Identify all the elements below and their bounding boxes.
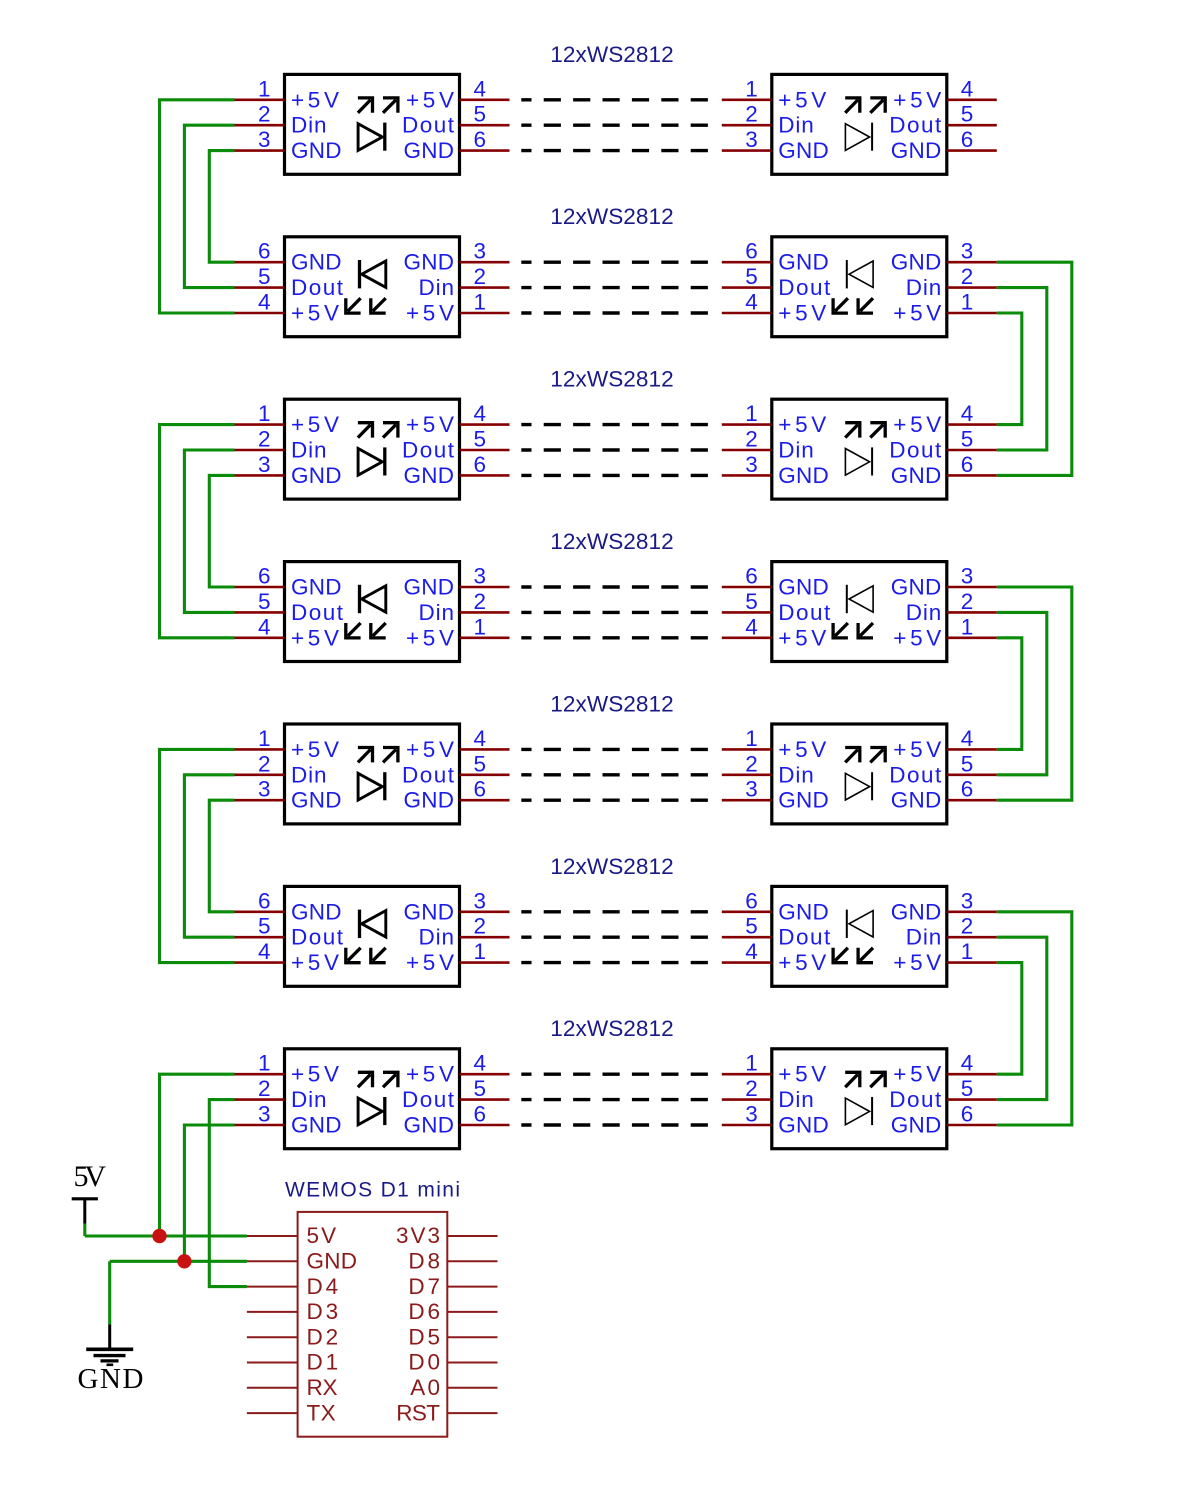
svg-text:3: 3: [474, 564, 487, 589]
wire GND rail to WEMOS GND pin: [110, 1260, 247, 1263]
wire row3 pin1 +5V to row4 pin4 +5V: [160, 425, 235, 638]
WS2812 pixel row 5 right pin numbers: [745, 726, 973, 802]
svg-text:3: 3: [961, 888, 974, 913]
WS2812 pixel row 5 left pin stubs: [235, 749, 510, 800]
WS2812 pixel row 1 right pin names: [778, 87, 942, 163]
WS2812 pixel row 5 left pin numbers: [258, 726, 486, 802]
WS2812 pixel row 5 left body: [285, 724, 460, 824]
svg-text:2: 2: [745, 102, 758, 127]
svg-text:6: 6: [474, 127, 487, 152]
svg-text:2: 2: [745, 1076, 758, 1101]
WEMOS D1 mini title: [285, 1179, 460, 1202]
wire row7 pin1 +5V down to 5V rail: [160, 1074, 235, 1236]
wire row6 pin1 +5V to row7 pin4 +5V: [997, 963, 1022, 1075]
LED strip row 4 value label 12xWS2812: [550, 529, 673, 554]
svg-text:GND: GND: [291, 899, 342, 924]
svg-text:GND: GND: [891, 138, 942, 163]
svg-text:Dout: Dout: [889, 113, 942, 138]
WS2812 pixel row 5 left LED symbol: [358, 748, 398, 801]
svg-text:5V: 5V: [74, 1160, 107, 1193]
svg-text:+5V: +5V: [778, 301, 826, 326]
svg-text:D8: D8: [408, 1249, 440, 1274]
svg-text:GND: GND: [891, 463, 942, 488]
WS2812 pixel row 2 right body: [772, 237, 947, 337]
svg-text:4: 4: [258, 939, 271, 964]
WS2812 pixel row 7 right pin names: [778, 1062, 942, 1138]
svg-text:3: 3: [258, 127, 271, 152]
svg-text:3V3: 3V3: [396, 1223, 440, 1248]
svg-text:Din: Din: [419, 925, 455, 950]
svg-text:Din: Din: [291, 1087, 327, 1112]
svg-text:+5V: +5V: [778, 950, 826, 975]
wire row5 pin3 GND to row6 pin6 GND: [209, 800, 234, 912]
svg-text:WEMOS D1 mini: WEMOS D1 mini: [285, 1179, 460, 1202]
svg-text:3: 3: [474, 239, 487, 264]
svg-text:12xWS2812: 12xWS2812: [550, 42, 673, 67]
WS2812 pixel row 7 left pin stubs: [235, 1074, 510, 1125]
svg-text:2: 2: [258, 751, 271, 776]
LED strip row 2 value label 12xWS2812: [550, 204, 673, 229]
WS2812 pixel row 2 right pin names: [778, 250, 941, 326]
svg-text:5: 5: [258, 589, 271, 614]
svg-text:1: 1: [745, 401, 758, 426]
WS2812 pixel row 7 left pin numbers: [258, 1051, 486, 1127]
wire row4 pin1 +5V to row5 pin4 +5V: [997, 638, 1022, 750]
WS2812 pixel row 1 right LED symbol: [845, 98, 885, 151]
svg-text:12xWS2812: 12xWS2812: [550, 367, 673, 392]
svg-text:GND: GND: [404, 138, 455, 163]
svg-text:+5V: +5V: [893, 625, 941, 650]
svg-text:RX: RX: [307, 1375, 338, 1400]
svg-text:4: 4: [961, 401, 974, 426]
wire row6 pin3 GND to row7 pin6 GND: [997, 912, 1072, 1125]
svg-text:2: 2: [258, 102, 271, 127]
WS2812 pixel row 1 right body: [772, 74, 947, 174]
svg-text:1: 1: [474, 290, 487, 315]
svg-text:3: 3: [258, 452, 271, 477]
svg-text:2: 2: [258, 427, 271, 452]
svg-text:+5V: +5V: [778, 87, 826, 112]
svg-text:2: 2: [961, 264, 974, 289]
WS2812 pixel row 6 left pin numbers: [258, 888, 486, 964]
svg-text:3: 3: [745, 127, 758, 152]
svg-text:4: 4: [474, 1051, 487, 1076]
svg-text:5: 5: [745, 264, 758, 289]
svg-text:4: 4: [474, 401, 487, 426]
svg-text:6: 6: [961, 1102, 974, 1127]
svg-text:+5V: +5V: [893, 737, 941, 762]
WS2812 pixel row 1 left pin names: [291, 87, 455, 163]
WS2812 pixel row 1 left pin stubs: [235, 100, 510, 151]
svg-text:GND: GND: [291, 1113, 342, 1138]
svg-text:Din: Din: [906, 600, 942, 625]
svg-text:GND: GND: [307, 1249, 358, 1274]
wire row1 pin1 +5V to row2 pin4 +5V: [160, 100, 235, 313]
LED strip row 5 value label 12xWS2812: [550, 691, 673, 716]
WS2812 pixel row 6 left pin names: [291, 899, 454, 975]
wire row2 pin1 +5V to row3 pin4 +5V: [997, 313, 1022, 425]
WS2812 pixel row 7 right pin numbers: [745, 1051, 973, 1127]
wire 5V flag down to 5V rail: [83, 1224, 86, 1237]
svg-text:+5V: +5V: [291, 301, 339, 326]
svg-text:+5V: +5V: [893, 950, 941, 975]
svg-text:1: 1: [745, 76, 758, 101]
WS2812 pixel row 3 right LED symbol: [845, 423, 885, 476]
svg-text:TX: TX: [307, 1400, 336, 1425]
svg-text:GND: GND: [891, 575, 942, 600]
wire row1 pin3 GND to row2 pin6 GND: [209, 151, 234, 263]
WS2812 pixel row 5 right pin stubs: [722, 749, 997, 800]
svg-text:1: 1: [474, 939, 487, 964]
svg-text:GND: GND: [404, 463, 455, 488]
svg-text:Dout: Dout: [402, 113, 455, 138]
svg-text:2: 2: [474, 914, 487, 939]
row 2 strip continuation dashed wires: [521, 262, 708, 313]
WS2812 pixel row 5 right LED symbol: [845, 748, 885, 801]
svg-text:6: 6: [474, 452, 487, 477]
svg-text:+5V: +5V: [291, 87, 339, 112]
wire row3 pin3 GND to row4 pin6 GND: [209, 475, 234, 587]
svg-text:D5: D5: [408, 1324, 440, 1349]
svg-text:D1: D1: [307, 1350, 339, 1375]
WS2812 pixel row 2 left pin stubs: [235, 262, 510, 313]
WEMOS D1 mini pin names: [307, 1223, 441, 1425]
svg-text:Dout: Dout: [889, 762, 942, 787]
WS2812 pixel row 3 right pin numbers: [745, 401, 973, 477]
svg-text:6: 6: [258, 239, 271, 264]
svg-text:6: 6: [258, 888, 271, 913]
WS2812 pixel row 6 left LED symbol: [346, 910, 386, 963]
WS2812 pixel row 1 left body: [285, 74, 460, 174]
wire row5 pin2 Din to row6 pin5 Dout: [184, 775, 234, 937]
svg-text:GND: GND: [778, 575, 829, 600]
WS2812 pixel row 4 left pin stubs: [235, 587, 510, 638]
WS2812 pixel row 2 left pin numbers: [258, 239, 486, 315]
WS2812 pixel row 2 right pin stubs: [722, 262, 997, 313]
WS2812 pixel row 7 right pin stubs: [722, 1074, 997, 1125]
svg-text:+5V: +5V: [893, 301, 941, 326]
svg-text:+5V: +5V: [893, 87, 941, 112]
svg-text:4: 4: [961, 76, 974, 101]
svg-text:5: 5: [474, 102, 487, 127]
svg-text:4: 4: [961, 1051, 974, 1076]
svg-text:Dout: Dout: [889, 1087, 942, 1112]
WS2812 pixel row 1 left LED symbol: [358, 98, 398, 151]
WS2812 pixel row 7 left body: [285, 1049, 460, 1149]
svg-text:GND: GND: [778, 463, 829, 488]
svg-text:12xWS2812: 12xWS2812: [550, 854, 673, 879]
svg-text:5: 5: [474, 751, 487, 776]
ground symbol label GND: [78, 1363, 144, 1395]
WS2812 pixel row 2 right LED symbol: [833, 260, 873, 313]
svg-text:GND: GND: [778, 788, 829, 813]
svg-text:6: 6: [258, 564, 271, 589]
svg-text:5: 5: [961, 1076, 974, 1101]
svg-text:Din: Din: [291, 113, 327, 138]
svg-text:GND: GND: [78, 1363, 144, 1395]
svg-text:Din: Din: [291, 762, 327, 787]
WS2812 pixel row 1 left pin numbers: [258, 76, 486, 152]
svg-text:GND: GND: [291, 463, 342, 488]
WS2812 pixel row 7 left pin names: [291, 1062, 455, 1138]
WS2812 pixel row 7 right LED symbol: [845, 1072, 885, 1125]
svg-text:2: 2: [474, 264, 487, 289]
junction on GND rail: [177, 1254, 191, 1268]
svg-text:GND: GND: [404, 1113, 455, 1138]
svg-text:D4: D4: [307, 1274, 339, 1299]
svg-text:+5V: +5V: [406, 625, 454, 650]
WS2812 pixel row 3 right body: [772, 399, 947, 499]
svg-text:4: 4: [745, 614, 758, 639]
svg-text:3: 3: [258, 1102, 271, 1127]
svg-text:GND: GND: [404, 788, 455, 813]
svg-text:4: 4: [258, 614, 271, 639]
svg-text:Dout: Dout: [778, 275, 831, 300]
svg-text:GND: GND: [778, 899, 829, 924]
svg-text:+5V: +5V: [406, 950, 454, 975]
WS2812 pixel row 3 left pin stubs: [235, 425, 510, 476]
row 3 strip continuation dashed wires: [521, 425, 708, 476]
svg-text:D2: D2: [307, 1324, 339, 1349]
svg-text:D3: D3: [307, 1299, 339, 1324]
WS2812 pixel row 6 left body: [285, 886, 460, 986]
svg-text:4: 4: [474, 726, 487, 751]
WS2812 pixel row 4 left pin numbers: [258, 564, 486, 640]
WS2812 pixel row 5 right body: [772, 724, 947, 824]
svg-text:+5V: +5V: [893, 412, 941, 437]
WS2812 pixel row 1 right pin stubs: [722, 100, 997, 151]
svg-text:GND: GND: [891, 899, 942, 924]
svg-text:1: 1: [745, 726, 758, 751]
svg-text:1: 1: [258, 76, 271, 101]
svg-text:6: 6: [961, 127, 974, 152]
svg-text:2: 2: [258, 1076, 271, 1101]
WS2812 pixel row 6 right pin names: [778, 899, 941, 975]
row 1 strip continuation dashed wires: [521, 100, 708, 151]
row 7 strip continuation dashed wires: [521, 1074, 708, 1125]
svg-text:Din: Din: [906, 925, 942, 950]
svg-text:Din: Din: [778, 438, 814, 463]
svg-text:5: 5: [961, 427, 974, 452]
svg-text:Din: Din: [778, 1087, 814, 1112]
svg-text:+5V: +5V: [406, 412, 454, 437]
svg-text:2: 2: [961, 589, 974, 614]
wire row4 pin2 Din to row5 pin5 Dout: [997, 612, 1047, 774]
svg-text:D7: D7: [408, 1274, 440, 1299]
svg-text:3: 3: [474, 888, 487, 913]
ground symbol: [86, 1324, 133, 1364]
svg-text:6: 6: [745, 239, 758, 264]
svg-text:1: 1: [258, 1051, 271, 1076]
svg-text:GND: GND: [778, 250, 829, 275]
WS2812 pixel row 4 right LED symbol: [833, 585, 873, 638]
WS2812 pixel row 3 left body: [285, 399, 460, 499]
WS2812 pixel row 3 left pin names: [291, 412, 455, 488]
svg-text:+5V: +5V: [778, 737, 826, 762]
svg-text:5V: 5V: [307, 1223, 337, 1248]
svg-text:GND: GND: [891, 250, 942, 275]
WS2812 pixel row 5 right pin names: [778, 737, 942, 813]
svg-text:6: 6: [961, 452, 974, 477]
svg-text:2: 2: [745, 427, 758, 452]
svg-text:6: 6: [474, 1102, 487, 1127]
wire row3 pin2 Din to row4 pin5 Dout: [184, 450, 234, 612]
WS2812 pixel row 6 right pin numbers: [745, 888, 973, 964]
WS2812 pixel row 3 right pin stubs: [722, 425, 997, 476]
svg-text:GND: GND: [291, 138, 342, 163]
svg-text:6: 6: [474, 777, 487, 802]
svg-text:3: 3: [961, 239, 974, 264]
WS2812 pixel row 6 right body: [772, 886, 947, 986]
svg-text:GND: GND: [291, 575, 342, 600]
LED strip row 3 value label 12xWS2812: [550, 367, 673, 392]
WS2812 pixel row 4 right pin numbers: [745, 564, 973, 640]
svg-text:5: 5: [474, 427, 487, 452]
svg-text:3: 3: [745, 452, 758, 477]
svg-text:A0: A0: [410, 1375, 440, 1400]
wire row2 pin2 Din to row3 pin5 Dout: [997, 288, 1047, 450]
svg-text:D0: D0: [408, 1350, 440, 1375]
svg-text:RST: RST: [396, 1400, 440, 1425]
svg-text:+5V: +5V: [406, 87, 454, 112]
svg-text:Dout: Dout: [402, 438, 455, 463]
WS2812 pixel row 4 right body: [772, 562, 947, 662]
WS2812 pixel row 6 right LED symbol: [833, 910, 873, 963]
svg-text:6: 6: [745, 564, 758, 589]
svg-text:+5V: +5V: [291, 950, 339, 975]
svg-text:Dout: Dout: [291, 600, 344, 625]
WS2812 pixel row 4 left LED symbol: [346, 585, 386, 638]
WS2812 pixel row 2 left LED symbol: [346, 260, 386, 313]
WS2812 pixel row 3 left LED symbol: [358, 423, 398, 476]
svg-text:Din: Din: [419, 600, 455, 625]
LED strip row 7 value label 12xWS2812: [550, 1016, 673, 1041]
svg-text:GND: GND: [891, 788, 942, 813]
svg-text:+5V: +5V: [291, 625, 339, 650]
wire row4 pin3 GND to row5 pin6 GND: [997, 587, 1072, 800]
svg-text:2: 2: [474, 589, 487, 614]
svg-text:5: 5: [745, 589, 758, 614]
svg-text:5: 5: [258, 914, 271, 939]
power flag 5V label: [74, 1160, 107, 1193]
svg-text:Dout: Dout: [402, 762, 455, 787]
WS2812 pixel row 2 right pin numbers: [745, 239, 973, 315]
wire row7 pin3 GND down to GND rail: [184, 1125, 234, 1261]
svg-text:+5V: +5V: [406, 737, 454, 762]
WS2812 pixel row 2 left pin names: [291, 250, 454, 326]
svg-text:4: 4: [474, 76, 487, 101]
svg-text:1: 1: [961, 290, 974, 315]
wire row6 pin2 Din to row7 pin5 Dout: [997, 937, 1047, 1099]
svg-text:2: 2: [961, 914, 974, 939]
svg-text:1: 1: [961, 614, 974, 639]
WS2812 pixel row 6 left pin stubs: [235, 912, 510, 963]
svg-text:Dout: Dout: [889, 438, 942, 463]
WS2812 pixel row 3 right pin names: [778, 412, 942, 488]
svg-text:5: 5: [961, 751, 974, 776]
svg-text:3: 3: [745, 1102, 758, 1127]
WS2812 pixel row 4 right pin names: [778, 575, 941, 651]
svg-text:+5V: +5V: [406, 1062, 454, 1087]
svg-text:4: 4: [745, 939, 758, 964]
svg-text:Din: Din: [291, 438, 327, 463]
WS2812 pixel row 4 right pin stubs: [722, 587, 997, 638]
svg-text:+5V: +5V: [291, 1062, 339, 1087]
LED strip row 1 value label 12xWS2812: [550, 42, 673, 67]
svg-text:Dout: Dout: [402, 1087, 455, 1112]
LED strip row 6 value label 12xWS2812: [550, 854, 673, 879]
row 5 strip continuation dashed wires: [521, 749, 708, 800]
svg-text:12xWS2812: 12xWS2812: [550, 691, 673, 716]
wire row2 pin3 GND to row3 pin6 GND: [997, 262, 1072, 475]
svg-text:12xWS2812: 12xWS2812: [550, 529, 673, 554]
WS2812 pixel row 7 left LED symbol: [358, 1072, 398, 1125]
svg-text:GND: GND: [891, 1113, 942, 1138]
svg-text:12xWS2812: 12xWS2812: [550, 204, 673, 229]
WS2812 pixel row 7 right body: [772, 1049, 947, 1149]
svg-text:+5V: +5V: [893, 1062, 941, 1087]
svg-text:Din: Din: [419, 275, 455, 300]
svg-text:3: 3: [258, 777, 271, 802]
WS2812 pixel row 6 right pin stubs: [722, 912, 997, 963]
svg-text:5: 5: [258, 264, 271, 289]
svg-text:Dout: Dout: [291, 275, 344, 300]
wire GND rail down to ground symbol: [108, 1261, 111, 1324]
svg-text:6: 6: [745, 888, 758, 913]
wire 5V rail to WEMOS 5V pin: [85, 1234, 247, 1237]
row 6 strip continuation dashed wires: [521, 912, 708, 963]
WEMOS D1 mini pin stubs: [247, 1236, 498, 1413]
WS2812 pixel row 1 right pin numbers: [745, 76, 973, 152]
wire row7 pin2 Din down to WEMOS D4: [209, 1100, 247, 1287]
wire row5 pin1 +5V to row6 pin4 +5V: [160, 749, 235, 962]
svg-text:+5V: +5V: [291, 737, 339, 762]
svg-text:3: 3: [745, 777, 758, 802]
svg-text:Dout: Dout: [291, 925, 344, 950]
svg-text:4: 4: [961, 726, 974, 751]
svg-text:Dout: Dout: [778, 600, 831, 625]
svg-text:+5V: +5V: [778, 412, 826, 437]
svg-text:5: 5: [474, 1076, 487, 1101]
svg-text:1: 1: [474, 614, 487, 639]
svg-text:6: 6: [961, 777, 974, 802]
svg-text:4: 4: [258, 290, 271, 315]
svg-text:12xWS2812: 12xWS2812: [550, 1016, 673, 1041]
svg-text:5: 5: [745, 914, 758, 939]
junction on 5V rail: [152, 1229, 166, 1243]
svg-text:GND: GND: [778, 138, 829, 163]
svg-text:GND: GND: [404, 899, 455, 924]
svg-text:Dout: Dout: [778, 925, 831, 950]
row 4 strip continuation dashed wires: [521, 587, 708, 638]
WS2812 pixel row 3 left pin numbers: [258, 401, 486, 477]
svg-text:+5V: +5V: [291, 412, 339, 437]
WEMOS D1 mini body: [298, 1212, 448, 1437]
svg-text:1: 1: [258, 401, 271, 426]
WS2812 pixel row 5 left pin names: [291, 737, 455, 813]
svg-text:5: 5: [961, 102, 974, 127]
WS2812 pixel row 2 left body: [285, 237, 460, 337]
svg-text:GND: GND: [778, 1113, 829, 1138]
svg-text:+5V: +5V: [778, 1062, 826, 1087]
svg-text:+5V: +5V: [406, 301, 454, 326]
WS2812 pixel row 4 left body: [285, 562, 460, 662]
svg-text:1: 1: [258, 726, 271, 751]
svg-text:3: 3: [961, 564, 974, 589]
svg-text:GND: GND: [404, 575, 455, 600]
svg-text:Din: Din: [778, 762, 814, 787]
svg-text:GND: GND: [291, 250, 342, 275]
